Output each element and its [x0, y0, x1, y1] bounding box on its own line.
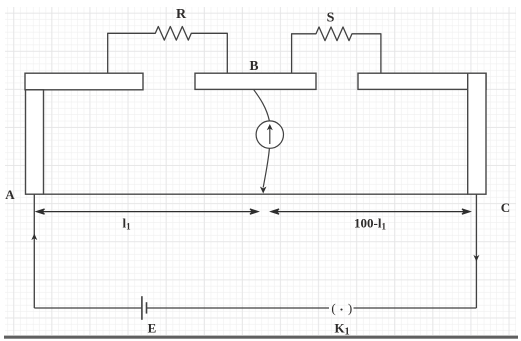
svg-text:): ) [348, 301, 352, 316]
svg-text:C: C [501, 200, 510, 215]
svg-text:A: A [5, 187, 15, 202]
svg-text:S: S [327, 11, 335, 26]
svg-text:.: . [340, 299, 343, 314]
svg-text:E: E [148, 321, 157, 336]
svg-text:(: ( [331, 301, 335, 316]
svg-text:B: B [249, 58, 258, 73]
svg-text:R: R [176, 7, 187, 22]
